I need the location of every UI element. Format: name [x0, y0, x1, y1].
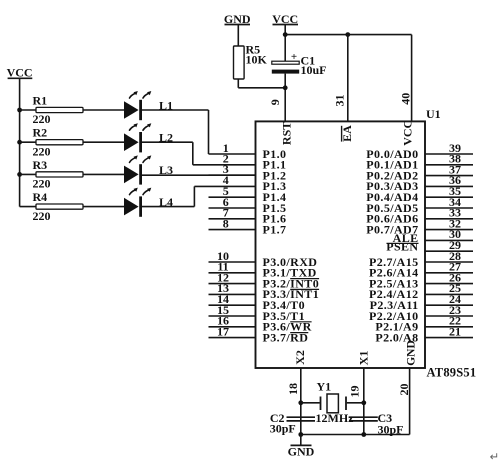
svg-text:21: 21 — [449, 324, 461, 338]
svg-text:17: 17 — [217, 324, 229, 338]
svg-text:220: 220 — [33, 144, 51, 158]
svg-text:40: 40 — [399, 93, 413, 105]
svg-text:AT89S51: AT89S51 — [427, 366, 477, 380]
svg-text:RST: RST — [279, 122, 293, 145]
svg-text:9: 9 — [268, 99, 282, 105]
svg-text:VCC: VCC — [401, 120, 415, 146]
svg-text:R2: R2 — [33, 126, 48, 140]
svg-text:R4: R4 — [33, 190, 48, 204]
svg-text:8: 8 — [223, 216, 229, 230]
svg-text:PSEN: PSEN — [386, 240, 418, 254]
svg-text:+: + — [291, 51, 297, 63]
svg-text:U1: U1 — [426, 107, 441, 121]
svg-text:20: 20 — [397, 384, 411, 396]
svg-text:10uF: 10uF — [301, 63, 327, 77]
svg-text:↵: ↵ — [490, 452, 500, 464]
svg-text:19: 19 — [348, 386, 362, 398]
svg-text:X1: X1 — [356, 351, 370, 366]
svg-text:GND: GND — [288, 445, 315, 459]
svg-text:31: 31 — [333, 95, 347, 107]
svg-text:18: 18 — [286, 383, 300, 395]
svg-text:12MHz: 12MHz — [316, 411, 355, 425]
svg-text:220: 220 — [33, 112, 51, 126]
svg-text:R1: R1 — [33, 94, 48, 108]
svg-text:30pF: 30pF — [378, 423, 404, 437]
svg-text:Y1: Y1 — [317, 380, 332, 394]
svg-text:GND: GND — [406, 340, 418, 366]
svg-text:220: 220 — [33, 177, 51, 191]
svg-text:30pF: 30pF — [270, 422, 296, 436]
svg-text:P1.7: P1.7 — [263, 222, 287, 236]
svg-text:VCC: VCC — [7, 66, 33, 80]
svg-text:220: 220 — [33, 209, 51, 223]
svg-text:R3: R3 — [33, 158, 48, 172]
svg-text:X2: X2 — [293, 350, 307, 365]
svg-text:10K: 10K — [246, 53, 268, 67]
